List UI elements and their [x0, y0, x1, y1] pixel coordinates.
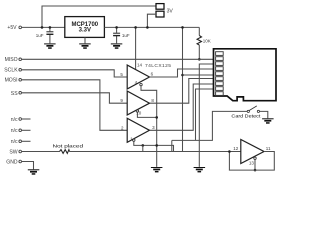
wire 3.3V bus down to card VDD	[182, 27, 184, 151]
wire SW row to buffer 4 input	[21, 151, 241, 153]
wire MISO to socket	[21, 58, 214, 60]
wire ground feeder to socket VSS pin	[199, 64, 213, 167]
svg-text:14: 14	[137, 63, 143, 68]
buffer3 enable circle pin 1	[133, 139, 135, 141]
op-amp buffer U1A triangle 1	[127, 65, 149, 89]
wire buffer3 enable to bus	[134, 141, 174, 151]
svg-text:3V: 3V	[167, 9, 174, 15]
wire buffer4 feedback loop	[229, 152, 274, 171]
svg-text:11: 11	[266, 146, 271, 151]
node junction C1/+5V	[49, 26, 52, 29]
regulator ground pin wire	[84, 37, 86, 43]
node junction buffer2 enable/bus	[155, 116, 158, 119]
wire +5V to regulator input	[21, 26, 65, 28]
ground GND terminal	[28, 169, 40, 174]
switch S1 card detect contacts	[247, 110, 249, 112]
buffer1 enable circle pin 4	[140, 83, 142, 85]
capacitor C1 plates	[46, 31, 53, 33]
jumper JP1 3V pad 2	[156, 11, 164, 17]
switch S1 lever	[249, 106, 257, 111]
wire buffer2 output to socket pin	[150, 79, 214, 104]
wire GND to ground	[21, 162, 34, 170]
ground under C2	[111, 43, 123, 48]
svg-text:1uF: 1uF	[36, 33, 44, 38]
node junction enable bus drop	[142, 144, 145, 147]
svg-text:1uF: 1uF	[122, 33, 130, 38]
node junction enable bus/gray vertical	[155, 144, 158, 147]
svg-text:n/c: n/c	[11, 117, 18, 123]
svg-text:n/c: n/c	[11, 139, 18, 145]
capacitor C1 leads	[49, 27, 51, 43]
svg-text:13: 13	[249, 161, 255, 166]
wire buffer1 enable to enable bus	[141, 86, 157, 167]
wire 3.3V bus down to buffer VCC pin 14	[135, 27, 137, 69]
node junction jumper/3.3V bus	[146, 26, 149, 29]
svg-text:SW: SW	[9, 149, 17, 155]
svg-text:MOSI: MOSI	[5, 78, 18, 84]
node junction buffer4 input	[228, 150, 231, 153]
svg-text:3.3V: 3.3V	[79, 27, 91, 33]
node junction C2/3.3V bus	[115, 26, 118, 29]
jumper JP1 3V pad 1	[156, 4, 164, 10]
wire buffer3 output to socket pin	[150, 84, 214, 130]
svg-text:MISO: MISO	[5, 57, 18, 63]
wire buffer1 output to socket CLK pin	[150, 69, 214, 77]
ground under C1	[44, 43, 56, 48]
svg-text:+5V: +5V	[7, 25, 17, 31]
ground card detect	[262, 118, 274, 123]
capacitor C2 plates	[113, 32, 120, 34]
node junction R1/MISO	[198, 58, 201, 61]
svg-text:Not placed: Not placed	[53, 144, 84, 150]
connector J1 microSD socket outline	[214, 49, 277, 101]
ground under regulator	[79, 43, 91, 48]
ground enable bus	[151, 167, 163, 172]
svg-text:74LCX125: 74LCX125	[145, 63, 171, 69]
node junction enable/loop	[254, 169, 257, 172]
ground feeder symbol	[194, 167, 206, 172]
svg-text:12: 12	[233, 146, 239, 151]
wire +5V up to jumper top line	[42, 6, 156, 27]
wire buffer4 enable to loop	[254, 159, 256, 170]
op-amp buffer U1B triangle 2	[127, 91, 149, 115]
wire MOSI to buffer 3 input	[21, 80, 127, 131]
socket pin pads	[216, 52, 224, 96]
wire buffer2 enable to bus	[137, 112, 156, 117]
resistor R1 10K	[197, 36, 201, 46]
wire SS to buffer 2 input	[21, 93, 127, 103]
regulator U2 MCP1700 box	[65, 17, 105, 38]
svg-text:10K: 10K	[203, 38, 211, 43]
wire SCLK to buffer 1 input	[21, 70, 127, 77]
wire enable bus short drop	[142, 145, 144, 151]
node junction VDD feed/3.3V bus	[181, 26, 184, 29]
node junction +5V/top line	[41, 26, 44, 29]
svg-text:Card Detect: Card Detect	[231, 113, 261, 119]
op-amp buffer U1D triangle 4	[241, 140, 264, 164]
svg-text:SCLK: SCLK	[4, 68, 18, 74]
wire card detect net to socket pin	[196, 89, 214, 140]
wire 3.3V bus from regulator output to resistor	[104, 26, 199, 28]
node junction VCC pin14/3.3V bus	[134, 26, 137, 29]
wire card detect drop to row	[171, 140, 173, 151]
wire VDD branch to socket pin	[183, 74, 214, 76]
capacitor C2 leads	[116, 27, 118, 43]
svg-text:SS: SS	[11, 91, 18, 97]
node junction VDD branch to socket	[181, 74, 184, 77]
wire card detect horizontal run	[172, 111, 247, 140]
buffer2 enable circle pin 10	[136, 110, 138, 112]
resistor R2 not placed	[60, 150, 70, 154]
svg-text:GND: GND	[6, 159, 18, 165]
wire switch to ground	[260, 111, 268, 118]
op-amp buffer U1C triangle 3	[127, 118, 149, 142]
wire jumper pad2 to 3.3V bus	[147, 14, 156, 27]
svg-text:n/c: n/c	[11, 128, 18, 134]
buffer4 enable circle pin 13	[254, 157, 256, 159]
